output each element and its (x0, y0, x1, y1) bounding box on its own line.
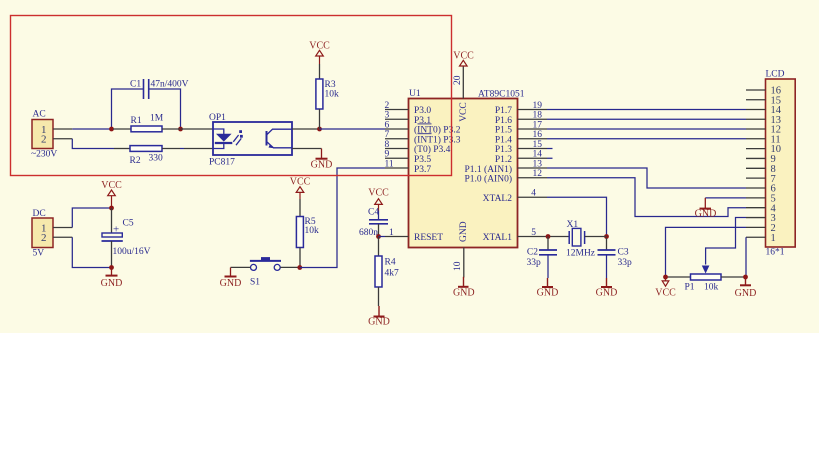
svg-text:GND: GND (453, 287, 475, 298)
capacitor C5 100u/16V (102, 208, 151, 268)
wire node to IC pin 6 (320, 128, 386, 130)
svg-text:10: 10 (453, 261, 463, 271)
svg-text:3: 3 (385, 111, 390, 121)
svg-text:15: 15 (533, 140, 543, 150)
svg-text:C2: C2 (527, 248, 538, 258)
svg-text:XTAL2: XTAL2 (483, 194, 513, 204)
svg-text:XTAL1: XTAL1 (483, 233, 513, 243)
wire S1 left to GND (231, 266, 251, 268)
svg-text:R4: R4 (385, 258, 396, 268)
capacitor C1 47n/400V (112, 79, 189, 127)
svg-text:C4: C4 (368, 208, 379, 218)
svg-text:12MHz: 12MHz (566, 249, 595, 259)
svg-text:19: 19 (533, 101, 543, 111)
svg-text:(INT1) P3.3: (INT1) P3.3 (414, 134, 461, 145)
node P1 right / GND (743, 275, 748, 280)
svg-text:X1: X1 (567, 220, 579, 230)
svg-text:13: 13 (533, 159, 543, 169)
svg-text:10k: 10k (704, 283, 719, 293)
svg-text:17: 17 (533, 120, 543, 130)
wire AC pin2 down to lower rail (72, 139, 114, 149)
svg-text:18: 18 (533, 111, 543, 121)
svg-text:9: 9 (385, 150, 390, 160)
svg-text:4k7: 4k7 (385, 269, 400, 279)
svg-text:VCC: VCC (459, 102, 469, 122)
wire opto collector to R3 node (292, 128, 320, 130)
wire AC pin1 to C1/R1 junction (72, 128, 113, 130)
wire node to P3.7 (300, 168, 385, 268)
svg-text:P3.0: P3.0 (414, 106, 431, 116)
svg-text:14: 14 (533, 150, 543, 160)
wire P1.7 to LCD14 (547, 109, 746, 111)
svg-text:P1.4: P1.4 (495, 135, 512, 145)
wire R1 junction to optocoupler anode (181, 128, 214, 130)
svg-text:DC: DC (33, 209, 46, 219)
node junction at C1/R1 right (178, 127, 183, 132)
ground GND (P1) (735, 277, 757, 299)
svg-text:C1: C1 (130, 80, 141, 90)
wire S1 right to R5 node (280, 266, 300, 268)
svg-text:1M: 1M (150, 114, 164, 124)
resistor R1 1M (113, 114, 180, 132)
svg-text:10k: 10k (325, 90, 340, 100)
IC U1 right pins 19..12 (518, 101, 553, 238)
wire P1.1 to LCD6 (547, 168, 746, 188)
svg-text:GND: GND (735, 288, 757, 299)
node RESET junction (376, 234, 381, 239)
switch S1 (250, 257, 281, 287)
svg-text:GND: GND (101, 278, 123, 289)
node P1 left / VCC (663, 275, 668, 280)
capacitor C4 680n (359, 208, 388, 239)
svg-text:P1.0 (AIN0): P1.0 (AIN0) (465, 174, 513, 185)
svg-text:GND: GND (311, 160, 333, 171)
IC U1 AT89C1051 body (409, 89, 525, 248)
svg-text:R2: R2 (130, 156, 141, 166)
svg-text:P1.7: P1.7 (495, 106, 512, 116)
node junction at C1/R1 left (109, 127, 114, 132)
svg-text:1: 1 (389, 228, 394, 238)
svg-text:P1.2: P1.2 (495, 155, 512, 165)
svg-text:VCC: VCC (655, 288, 676, 299)
svg-text:16*1: 16*1 (766, 248, 785, 258)
node C5 top (109, 206, 114, 211)
svg-text:4: 4 (531, 188, 536, 198)
resistor R4 4k7 (375, 237, 399, 307)
node XTAL2/C3 (604, 234, 609, 239)
svg-text:11: 11 (385, 159, 394, 169)
svg-text:100u/16V: 100u/16V (113, 247, 151, 257)
node C5 bottom (109, 265, 114, 270)
svg-text:+: + (113, 224, 119, 236)
svg-text:C3: C3 (618, 248, 629, 258)
IC U1 left pins 2,3,6,7,8,9,11 (385, 101, 409, 238)
svg-text:47n/400V: 47n/400V (151, 80, 189, 90)
svg-text:8: 8 (385, 140, 390, 150)
svg-text:1: 1 (771, 233, 776, 244)
wire RESET node to IC pin1 (379, 236, 386, 238)
svg-text:R1: R1 (131, 116, 142, 126)
svg-text:~230V: ~230V (31, 150, 57, 160)
wire DC pin1 to C5 top node (72, 208, 111, 228)
node R5/S1 (297, 265, 302, 270)
svg-text:R3: R3 (325, 80, 336, 90)
svg-text:U1: U1 (409, 89, 421, 99)
connector J AC (31, 110, 72, 160)
svg-text:P3.5: P3.5 (414, 155, 431, 165)
svg-text:2: 2 (41, 134, 47, 146)
svg-text:P1: P1 (685, 283, 695, 293)
ground GND (S1) (220, 268, 242, 289)
svg-text:AT89C1051: AT89C1051 (478, 90, 525, 100)
connector LCD 16*1 (746, 70, 795, 258)
resistor R2 330 (114, 146, 180, 166)
svg-text:2: 2 (41, 232, 47, 244)
svg-text:2: 2 (385, 101, 390, 111)
svg-text:330: 330 (149, 154, 164, 164)
svg-text:GND: GND (220, 278, 242, 289)
svg-text:680n: 680n (359, 228, 378, 238)
svg-text:5: 5 (531, 228, 536, 238)
wire R2 to optocoupler cathode (180, 148, 184, 150)
svg-text:P1.3: P1.3 (495, 145, 512, 155)
svg-text:7: 7 (385, 130, 390, 140)
svg-text:P1.5: P1.5 (495, 126, 512, 136)
capacitor C2 33p (527, 237, 558, 279)
svg-text:20: 20 (453, 75, 463, 85)
red boundary box (mains section) (11, 16, 452, 176)
svg-text:PC817: PC817 (209, 158, 235, 168)
connector J DC (32, 209, 72, 259)
svg-text:RESET: RESET (414, 233, 443, 243)
node junction R3 bottom (317, 127, 322, 132)
ground GND (C5) (101, 268, 123, 290)
wire LCD pin2 to VCC node (666, 227, 747, 277)
ground GND (LCD pin5) (695, 198, 717, 220)
ground GND (C2) (537, 278, 559, 298)
svg-text:AC: AC (33, 110, 46, 120)
potentiometer P1 10k (666, 266, 746, 293)
svg-text:GND: GND (596, 287, 618, 298)
svg-text:GND: GND (537, 287, 559, 298)
wire LCD pin1 to GND node (745, 237, 748, 277)
resistor R3 10k (316, 79, 339, 129)
svg-text:33p: 33p (527, 258, 542, 268)
power VCC (R3) (309, 41, 330, 80)
power VCC (C5) (101, 180, 122, 208)
power VCC (P1, pointing down) (655, 277, 676, 299)
svg-text:GND: GND (695, 209, 717, 220)
wire P1.5 to LCD12 (547, 128, 746, 130)
svg-text:GND: GND (368, 317, 390, 328)
svg-text:33p: 33p (618, 258, 633, 268)
svg-text:(T0) P3.4: (T0) P3.4 (414, 144, 451, 155)
power VCC (R5) (290, 176, 311, 216)
IC U1 pin 20 VCC (453, 51, 474, 99)
node XTAL1/C2 (546, 234, 551, 239)
wire LCD pin5 to GND (705, 197, 746, 199)
svg-text:VCC: VCC (290, 176, 311, 187)
ground GND (C3) (596, 278, 618, 298)
power VCC (C4/RESET) (368, 188, 389, 220)
svg-text:P3.7: P3.7 (414, 165, 431, 175)
ground GND (opto emitter) (292, 149, 332, 171)
IC U1 pin 10 GND (453, 248, 475, 299)
svg-text:P1.6: P1.6 (495, 116, 512, 126)
svg-text:10k: 10k (305, 226, 320, 236)
svg-text:OP1: OP1 (209, 113, 226, 123)
wire LCD pin3 to P1 wiper (706, 218, 746, 265)
svg-text:5V: 5V (33, 249, 45, 259)
svg-text:P1.1 (AIN1): P1.1 (AIN1) (465, 164, 513, 175)
crystal X1 12MHz (566, 220, 607, 259)
svg-text:S1: S1 (250, 278, 260, 288)
optocoupler OP1 PC817 (209, 113, 292, 168)
svg-text:VCC: VCC (368, 188, 389, 199)
svg-text:12: 12 (533, 169, 543, 179)
svg-text:GND: GND (459, 221, 469, 242)
svg-text:LCD: LCD (766, 70, 785, 80)
schematic sheet background (0, 0, 819, 333)
svg-text:16: 16 (533, 130, 543, 140)
svg-text:C5: C5 (123, 219, 134, 229)
wire DC pin2 to C5 bottom node (72, 237, 111, 267)
wire P1.0 to LCD4 (547, 178, 746, 217)
wire XTAL2 to crystal right node (547, 197, 607, 234)
resistor R5 10k (296, 217, 319, 268)
wire P1.6 to LCD13 (547, 118, 746, 120)
wire XTAL1 to crystal left node (547, 236, 569, 238)
ground GND (R4) (368, 306, 390, 328)
wire P1.4 to LCD11 (547, 138, 746, 140)
capacitor C3 33p (598, 238, 633, 278)
svg-text:6: 6 (385, 120, 390, 130)
